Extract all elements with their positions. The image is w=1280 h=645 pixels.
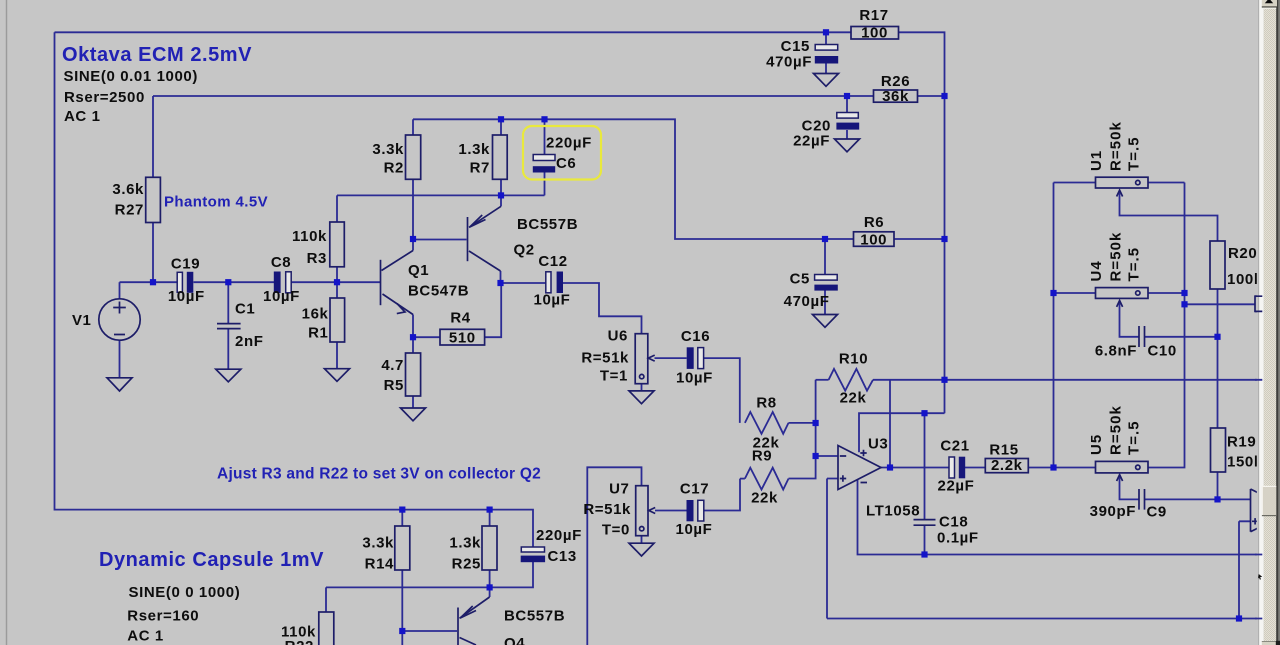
svg-text:T=0: T=0: [602, 522, 630, 539]
wire ends over scrollbar edge: [1255, 380, 1262, 619]
ground under V1: [107, 378, 132, 391]
svg-text:C19: C19: [171, 256, 200, 273]
op-amp U2 right partial: [1251, 489, 1263, 532]
node Q1 collector: [410, 236, 416, 242]
node C18/Vminus rail: [921, 551, 927, 557]
svg-text:4.7: 4.7: [381, 357, 404, 374]
svg-text:R22: R22: [285, 638, 314, 645]
svg-text:C10: C10: [1148, 343, 1177, 360]
wire R20 bottom lead: [1217, 289, 1219, 337]
wire left border loop: [55, 32, 534, 547]
transistor Q2: [468, 206, 502, 271]
wire feedback vertical to output: [889, 380, 891, 468]
potentiometer U1: [1096, 177, 1149, 196]
node R15/U5: [1050, 464, 1056, 470]
wire U1 left vertical to U4 and U5: [1053, 183, 1055, 468]
resistor R27: [146, 177, 161, 222]
svg-text:C6: C6: [556, 155, 576, 172]
wire R2 bottom to Q1 collector: [412, 180, 414, 240]
wire U1 row: [1054, 182, 1185, 184]
yellow highlight around C6: [523, 126, 601, 180]
voltage source V1: [99, 299, 140, 340]
svg-text:U6: U6: [608, 328, 628, 345]
ground under R1: [325, 369, 350, 382]
node C1: [225, 279, 231, 285]
wire R4 row: [413, 283, 501, 337]
op-amp U3: [838, 446, 881, 490]
svg-text:C8: C8: [271, 254, 291, 271]
svg-text:T=.5: T=.5: [1126, 420, 1143, 455]
wire Q4 emitter stub: [489, 587, 491, 597]
transistor Q4: [458, 597, 490, 645]
svg-text:R2: R2: [384, 160, 404, 177]
node opamp output: [887, 464, 893, 470]
wire R27 vertical: [152, 96, 154, 282]
wire opamp plus input: [827, 479, 838, 619]
svg-text:R25: R25: [452, 556, 481, 573]
node C10/R19: [1214, 334, 1220, 340]
resistor R14: [395, 526, 410, 570]
resistor R10 zigzag: [829, 369, 873, 391]
node R7 top: [498, 116, 504, 122]
scrollbar up button: [1262, 0, 1277, 7]
resistor R6: [854, 232, 895, 247]
wire Q4 base: [402, 630, 457, 632]
wire U5 wiper to C9: [1120, 477, 1140, 500]
svg-text:T=.5: T=.5: [1126, 136, 1143, 171]
wire R19 top lead: [1217, 337, 1219, 428]
svg-text:R6: R6: [864, 214, 884, 231]
resistor R3: [330, 222, 345, 267]
left window border line: [6, 0, 8, 645]
svg-text:LT1058: LT1058: [866, 503, 920, 520]
svg-text:R5: R5: [384, 377, 404, 394]
capacitor C8: [274, 272, 281, 294]
svg-text:10µF: 10µF: [534, 292, 571, 309]
resistor R7: [493, 135, 508, 179]
svg-text:6.8nF: 6.8nF: [1095, 343, 1137, 360]
node inverting input: [813, 453, 819, 459]
wire R10 right lead / long top bus: [873, 379, 1261, 381]
capacitor C21: [949, 457, 955, 478]
svg-text:1.3k: 1.3k: [458, 141, 490, 158]
svg-text:220µF: 220µF: [546, 135, 592, 152]
capacitor C16: [687, 347, 694, 369]
ground under C20: [835, 139, 860, 152]
svg-text:R10: R10: [839, 351, 868, 368]
svg-text:C1: C1: [235, 301, 255, 318]
svg-text:3.6k: 3.6k: [112, 181, 144, 198]
capacitor C10: [1139, 326, 1145, 347]
capacitor C20: [837, 113, 859, 119]
svg-text:R=50k: R=50k: [1108, 121, 1125, 171]
wire C5 branch: [824, 239, 826, 315]
wire V1 bottom lead: [119, 340, 121, 378]
wire R19 bottom lead: [1217, 472, 1219, 499]
wire main input row: [120, 281, 381, 283]
mouse cursor: [1258, 574, 1262, 580]
wire R8 right lead: [789, 422, 816, 424]
svg-text:10µF: 10µF: [263, 288, 300, 305]
wire supply rail to R6: [413, 119, 945, 239]
capacitor C9: [1139, 489, 1145, 510]
svg-text:510: 510: [449, 330, 476, 347]
wire right resistor row: [1185, 303, 1256, 305]
wire U6 ground lead: [641, 384, 643, 391]
ground under U7: [629, 543, 654, 556]
wire Q1 collector stub: [412, 239, 414, 251]
transistor Q1: [381, 251, 414, 315]
node R19/C9: [1214, 496, 1220, 502]
svg-text:100: 100: [860, 232, 887, 249]
svg-text:1.3k: 1.3k: [449, 535, 481, 552]
svg-text:BC547B: BC547B: [408, 283, 469, 300]
wire Q2 emitter stub: [500, 195, 502, 206]
node R26/C20: [844, 93, 850, 99]
wire output row: [881, 183, 1185, 468]
svg-text:110k: 110k: [292, 228, 327, 245]
resistor R2: [406, 135, 421, 179]
svg-text:0.1µF: 0.1µF: [937, 530, 979, 547]
wire opamp V- pin and rail: [858, 480, 1262, 555]
label U1 rotated: [1088, 121, 1143, 171]
svg-text:Ajust R3 and R22 to set 3V on: Ajust R3 and R22 to set 3V on collector …: [217, 466, 541, 483]
wire C1 branch: [227, 282, 229, 369]
svg-text:R8: R8: [756, 395, 776, 412]
node V+/C18: [921, 410, 927, 416]
wire U7 feed from bottom: [587, 467, 641, 645]
wire U1 wiper to R20: [1120, 191, 1218, 241]
node R14 bottom / Q4 base: [399, 628, 405, 634]
svg-text:R17: R17: [859, 7, 888, 24]
ground under C1: [216, 369, 241, 382]
svg-text:390pF: 390pF: [1090, 503, 1136, 520]
svg-text:C17: C17: [680, 481, 709, 498]
svg-text:470µF: 470µF: [766, 54, 812, 71]
capacitor C19: [177, 272, 182, 292]
wire C15 branch: [825, 32, 827, 73]
capacitor C1: [217, 324, 241, 329]
wire R14 leads: [401, 510, 403, 645]
svg-text:U1: U1: [1088, 150, 1105, 171]
svg-text:SINE(0 0.01 1000): SINE(0 0.01 1000): [64, 68, 198, 85]
svg-text:R4: R4: [450, 310, 470, 327]
wire C12 row to U6: [501, 283, 642, 334]
resistor R18 partial right edge: [1255, 296, 1267, 311]
resistor R4: [440, 329, 485, 345]
capacitor C13: [521, 547, 544, 552]
svg-text:T=.5: T=.5: [1126, 247, 1143, 282]
svg-text:10µF: 10µF: [676, 370, 713, 387]
resistor R25: [482, 526, 497, 570]
svg-text:3.3k: 3.3k: [372, 141, 404, 158]
node R17/C15: [823, 29, 829, 35]
svg-text:470µF: 470µF: [784, 293, 830, 310]
svg-text:C12: C12: [538, 253, 567, 270]
wire R5 leads: [412, 337, 414, 408]
svg-text:Phantom 4.5V: Phantom 4.5V: [164, 194, 268, 211]
capacitor C18: [914, 520, 936, 526]
svg-text:Q1: Q1: [408, 262, 429, 279]
node R3/R1: [334, 279, 340, 285]
svg-text:R=51k: R=51k: [581, 350, 629, 367]
svg-text:C13: C13: [548, 548, 577, 565]
svg-text:V1: V1: [72, 312, 92, 329]
potentiometer U4: [1096, 288, 1149, 307]
wire C6 bottom to emitter node: [544, 173, 546, 196]
svg-text:U4: U4: [1088, 260, 1105, 281]
svg-text:Oktava ECM 2.5mV: Oktava ECM 2.5mV: [62, 44, 252, 66]
svg-text:AC 1: AC 1: [127, 628, 164, 645]
resistor R5: [406, 353, 421, 396]
svg-text:C5: C5: [790, 271, 810, 288]
node bus/R26: [941, 93, 947, 99]
svg-text:R19: R19: [1227, 434, 1256, 451]
node Q2 emitter: [498, 192, 504, 198]
wire Q2 collector stub: [500, 271, 502, 283]
label U4 rotated: [1088, 232, 1143, 282]
svg-text:10µF: 10µF: [676, 521, 713, 538]
node C6 top: [541, 116, 547, 122]
node Q1 emitter/R4: [410, 334, 416, 340]
svg-text:AC 1: AC 1: [64, 108, 101, 125]
resistor R8 zigzag: [745, 412, 789, 434]
wire C6 top lead: [544, 119, 546, 154]
svg-text:Q2: Q2: [514, 242, 535, 259]
wire R3 top row y195: [337, 195, 545, 222]
wire to opamp minus input: [816, 455, 838, 457]
capacitor C5: [815, 275, 838, 281]
svg-text:C15: C15: [781, 38, 810, 55]
node U4 right lower: [1181, 301, 1187, 307]
potentiometer U5: [1096, 461, 1149, 481]
scrollbar thumb: [1262, 486, 1276, 516]
svg-text:C9: C9: [1147, 504, 1167, 521]
wire C16 to R8: [704, 358, 740, 423]
node bottom rail / right opamp: [1236, 615, 1242, 621]
wire R22 branch: [326, 587, 490, 612]
wire R25 leads: [489, 510, 491, 588]
potentiometer U7: [636, 486, 656, 536]
node U4 right upper: [1181, 290, 1187, 296]
svg-text:R=51k: R=51k: [583, 501, 631, 518]
wire C13 bottom: [490, 562, 533, 587]
svg-text:SINE(0 0 1000): SINE(0 0 1000): [129, 584, 241, 601]
ground under U6: [629, 391, 654, 404]
svg-text:BC557B: BC557B: [517, 216, 578, 233]
resistor R1: [330, 298, 345, 342]
svg-text:R1: R1: [308, 325, 328, 342]
label U5 rotated: [1088, 405, 1143, 455]
node R25 top: [487, 507, 493, 513]
node Q4 emitter / C13: [487, 584, 493, 590]
resistor R9 zigzag: [745, 468, 789, 490]
wire Q1 emitter stub: [412, 315, 414, 338]
wire Q2 base: [413, 239, 467, 241]
wire R9 left lead: [740, 478, 745, 480]
svg-text:2nF: 2nF: [235, 333, 263, 350]
resistor R17: [851, 27, 899, 40]
svg-text:R3: R3: [307, 250, 327, 267]
capacitor C6: [533, 155, 555, 161]
wire top rail R17 row: [55, 32, 945, 380]
ground under R5: [401, 408, 426, 421]
wire V1 top lead: [119, 282, 121, 299]
svg-text:100: 100: [861, 25, 888, 42]
node U4 left: [1050, 290, 1056, 296]
svg-text:U7: U7: [609, 481, 629, 498]
svg-text:U3: U3: [868, 436, 888, 453]
wire C10 to R19 vertical: [1145, 336, 1218, 338]
wire bottom reference rail: [827, 618, 1261, 620]
svg-text:2.2k: 2.2k: [991, 457, 1023, 474]
capacitor C17: [687, 500, 694, 521]
svg-text:R7: R7: [470, 160, 490, 177]
node bus/R10: [941, 377, 947, 383]
svg-text:R27: R27: [115, 202, 144, 219]
svg-text:22µF: 22µF: [793, 133, 830, 150]
svg-text:C21: C21: [940, 438, 969, 455]
svg-text:3.3k: 3.3k: [362, 535, 394, 552]
ground under C5: [813, 315, 838, 328]
potentiometer U6: [635, 334, 655, 384]
resistor R20: [1210, 241, 1225, 289]
wire U4 row: [1054, 292, 1185, 294]
svg-text:36k: 36k: [882, 88, 909, 105]
wire C9 to right opamp: [1145, 498, 1251, 500]
svg-text:R=50k: R=50k: [1108, 232, 1125, 282]
wire R7 bottom lead: [500, 180, 502, 196]
node R8/R10: [813, 420, 819, 426]
wire R10 left lead: [816, 379, 829, 381]
scrollbar area: [1257, 0, 1280, 645]
svg-text:BC557B: BC557B: [504, 608, 565, 625]
svg-text:U5: U5: [1088, 434, 1105, 455]
svg-text:R15: R15: [989, 442, 1018, 459]
svg-text:Rser=160: Rser=160: [127, 608, 199, 625]
svg-text:Rser=2500: Rser=2500: [64, 89, 145, 106]
wire R7 top lead: [500, 119, 502, 135]
svg-text:C16: C16: [681, 328, 710, 345]
wire R26 row: [153, 95, 945, 97]
resistor R19: [1211, 428, 1226, 472]
svg-text:T=1: T=1: [600, 368, 628, 385]
wire R1 bottom lead: [336, 342, 338, 369]
svg-text:22k: 22k: [840, 390, 867, 407]
resistor R26: [874, 90, 918, 102]
node R14 top: [399, 507, 405, 513]
capacitor C15: [815, 45, 838, 51]
wire C18 vertical: [924, 413, 926, 554]
svg-text:R14: R14: [365, 556, 394, 573]
node bus/R6: [941, 236, 947, 242]
wire inverting input bus: [789, 380, 816, 479]
wire C17 to R9: [705, 479, 741, 511]
resistor R15: [985, 459, 1028, 473]
svg-text:22µF: 22µF: [938, 478, 975, 495]
wire C20 branch: [846, 96, 848, 139]
svg-text:10µF: 10µF: [168, 288, 205, 305]
svg-text:R9: R9: [752, 448, 772, 465]
node Q2 collector: [497, 280, 503, 286]
node R27 bottom: [150, 279, 156, 285]
svg-text:22k: 22k: [751, 490, 778, 507]
capacitor C12: [546, 272, 551, 293]
scrollbar down button: [1262, 642, 1277, 645]
svg-text:R20: R20: [1228, 245, 1257, 262]
wire right opamp plus input: [1239, 521, 1251, 618]
wire opamp V+ pin: [859, 380, 945, 453]
svg-text:C18: C18: [939, 514, 968, 531]
svg-text:16k: 16k: [302, 306, 329, 323]
wire R3 bottom / R1 top: [336, 267, 338, 298]
svg-text:220µF: 220µF: [536, 527, 582, 544]
resistor R22: [319, 612, 334, 645]
svg-text:Dynamic Capsule 1mV: Dynamic Capsule 1mV: [99, 549, 324, 571]
wire U7 ground lead: [641, 536, 643, 543]
svg-text:Q4: Q4: [504, 635, 525, 645]
wire R2 top lead: [412, 119, 414, 135]
wire U4 wiper to C10: [1120, 302, 1140, 337]
wire U6 wiper to C16: [655, 357, 687, 359]
ground under C15: [814, 74, 839, 87]
node R6/C5: [822, 236, 828, 242]
svg-text:R=50k: R=50k: [1108, 405, 1125, 455]
wire U7 wiper to C17: [655, 510, 687, 512]
